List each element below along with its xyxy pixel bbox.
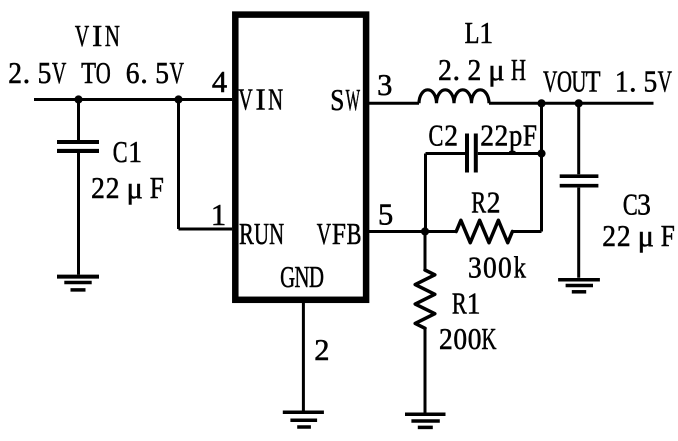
svg-text:W: W	[346, 85, 361, 118]
svg-text:μ: μ	[127, 171, 143, 205]
svg-text:F: F	[661, 220, 675, 254]
svg-text:V: V	[170, 56, 185, 90]
reference label R1	[452, 286, 481, 321]
value label 22pF	[480, 119, 537, 153]
svg-text:5: 5	[378, 198, 393, 232]
svg-text:V: V	[52, 56, 67, 90]
svg-text:2: 2	[106, 172, 120, 206]
pin label GND	[280, 260, 324, 294]
pin label SW	[330, 84, 360, 118]
capacitor C3	[560, 176, 599, 186]
svg-text:H: H	[511, 53, 526, 87]
svg-text:N: N	[268, 82, 283, 116]
node C2 junction	[537, 149, 545, 157]
wire C1 top lead	[77, 100, 80, 141]
svg-text:0: 0	[483, 251, 497, 285]
net label VIN	[75, 19, 120, 53]
net label VOUT 1.5V	[543, 64, 672, 99]
pin number 2	[314, 333, 329, 367]
node VFB junction	[421, 227, 429, 235]
wire feedback vertical	[540, 103, 543, 231]
svg-text:C: C	[113, 135, 128, 169]
svg-text:R: R	[452, 286, 467, 320]
svg-text:1: 1	[128, 136, 142, 170]
svg-text:1: 1	[467, 287, 481, 321]
svg-text:2: 2	[602, 220, 616, 254]
value label 22uF (C3)	[602, 219, 675, 254]
pin label VIN	[238, 82, 283, 116]
svg-text:I: I	[92, 19, 102, 53]
value label 200K	[439, 322, 497, 356]
svg-text:F: F	[150, 172, 164, 206]
wire C2 right lead	[478, 152, 542, 155]
pin number 3	[377, 68, 392, 102]
svg-text:μ: μ	[488, 53, 504, 87]
svg-text:2: 2	[314, 333, 329, 367]
svg-text:B: B	[347, 217, 362, 251]
wire GND pin 2 lead	[302, 302, 305, 411]
node input junction A	[74, 95, 82, 103]
svg-text:D: D	[309, 260, 324, 294]
reference label C2	[428, 118, 457, 153]
capacitor C1	[57, 142, 99, 151]
svg-text:2: 2	[438, 54, 452, 88]
pin number 4	[212, 65, 227, 99]
svg-text:k: k	[514, 251, 526, 285]
svg-text:1: 1	[615, 65, 629, 99]
reference label R2	[471, 185, 500, 220]
svg-text:μ: μ	[638, 219, 654, 253]
wire input rail	[34, 98, 232, 101]
capacitor C2	[467, 134, 476, 173]
svg-text:0: 0	[498, 251, 512, 285]
pin label VFB	[317, 217, 362, 252]
svg-text:G: G	[280, 260, 295, 294]
svg-text:2: 2	[439, 323, 453, 357]
svg-text:V: V	[75, 19, 90, 53]
wire C2 left lead	[426, 152, 466, 155]
svg-text:.: .	[453, 53, 461, 87]
pin number 5	[378, 198, 393, 232]
svg-text:S: S	[330, 84, 344, 118]
svg-text:2: 2	[8, 57, 22, 91]
reference label L1	[465, 15, 493, 50]
svg-text:.: .	[23, 56, 31, 90]
svg-text:2: 2	[617, 220, 631, 254]
svg-text:K: K	[482, 322, 497, 356]
wire C1 bottom lead	[77, 153, 80, 275]
svg-text:R: R	[239, 217, 254, 251]
wire R2 right	[512, 230, 541, 233]
svg-text:N: N	[295, 260, 310, 294]
ground (C1)	[57, 277, 99, 290]
svg-text:V: V	[543, 64, 558, 98]
svg-text:U: U	[571, 65, 586, 99]
svg-text:N: N	[105, 19, 120, 53]
svg-text:V: V	[317, 217, 332, 251]
svg-text:3: 3	[377, 68, 392, 102]
node VOUT junction B	[575, 99, 583, 107]
svg-text:T: T	[586, 64, 601, 98]
node input junction B	[174, 95, 182, 103]
value label 22uF (C1)	[91, 171, 164, 206]
ground (C3)	[558, 280, 600, 292]
svg-text:2: 2	[480, 119, 494, 153]
wire R1 top lead	[424, 232, 427, 271]
svg-text:5: 5	[155, 57, 169, 91]
svg-text:T: T	[81, 56, 96, 90]
wire VOUT rail	[489, 102, 654, 105]
svg-text:I: I	[255, 82, 265, 116]
wire VFB	[369, 230, 456, 233]
svg-text:5: 5	[38, 57, 52, 91]
svg-text:L: L	[465, 15, 480, 49]
IC U1 body (regulator)	[235, 15, 366, 300]
svg-text:6: 6	[126, 57, 140, 91]
svg-text:C: C	[428, 118, 443, 152]
wire C3 top lead	[577, 103, 580, 174]
svg-text:2: 2	[91, 172, 105, 206]
reference label C3	[623, 187, 651, 222]
svg-text:V: V	[238, 82, 253, 116]
pin number 1	[211, 198, 226, 232]
ground (R1)	[405, 414, 446, 427]
svg-text:F: F	[523, 119, 537, 153]
reference label C1	[113, 135, 142, 170]
value label 2.5V TO 6.5V	[8, 56, 184, 91]
svg-text:2: 2	[444, 119, 458, 153]
value label 300k	[468, 251, 526, 285]
svg-text:F: F	[332, 218, 346, 252]
svg-text:2: 2	[487, 186, 501, 220]
svg-text:4: 4	[212, 65, 227, 99]
wire RUN branch	[179, 100, 233, 230]
svg-text:.: .	[140, 56, 148, 90]
svg-text:.: .	[629, 65, 637, 99]
svg-text:3: 3	[637, 188, 651, 222]
svg-text:2: 2	[467, 54, 481, 88]
svg-text:2: 2	[494, 119, 508, 153]
wire SW to inductor	[369, 102, 419, 105]
node VOUT junction A	[537, 99, 545, 107]
svg-text:O: O	[96, 56, 111, 90]
value label 2.2uH	[438, 53, 526, 87]
wire R1 bottom lead	[424, 328, 427, 412]
svg-text:0: 0	[453, 323, 467, 357]
svg-text:U: U	[254, 217, 269, 251]
svg-text:1: 1	[211, 198, 226, 232]
svg-text:C: C	[623, 187, 638, 221]
svg-text:R: R	[471, 185, 486, 219]
inductor L1	[419, 90, 489, 104]
svg-text:O: O	[557, 65, 572, 99]
wire C3 bottom lead	[577, 188, 580, 278]
resistor R2	[456, 220, 512, 242]
svg-text:0: 0	[468, 323, 482, 357]
svg-text:3: 3	[468, 251, 482, 285]
svg-text:V: V	[658, 64, 673, 98]
svg-text:5: 5	[644, 65, 658, 99]
resistor R1	[415, 270, 435, 328]
svg-text:1: 1	[479, 17, 493, 51]
svg-text:N: N	[269, 217, 284, 251]
svg-text:p: p	[509, 120, 522, 153]
ground (IC pin 2)	[283, 412, 324, 427]
wire C2 to VFB node	[424, 154, 427, 232]
pin label RUN	[239, 217, 284, 251]
